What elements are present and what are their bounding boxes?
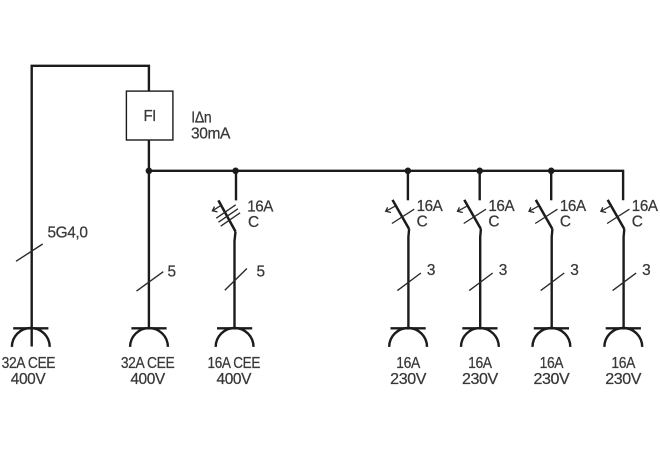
svg-text:C: C <box>488 214 499 231</box>
svg-text:16A: 16A <box>540 355 565 372</box>
wire: horizontal bus with right end drop <box>149 171 623 201</box>
wire: below blade <box>622 229 625 329</box>
breaker cross slash <box>535 209 557 223</box>
slash conductor mark column 5 <box>469 273 493 291</box>
svg-text:FI: FI <box>143 108 156 125</box>
earth bar <box>606 327 641 329</box>
svg-text:IΔn: IΔn <box>191 109 211 126</box>
dome arc <box>461 328 499 347</box>
svg-text:16A: 16A <box>560 198 587 215</box>
svg-text:3: 3 <box>642 262 650 279</box>
RCD FI box U1 <box>126 91 172 140</box>
svg-text:16A: 16A <box>611 355 636 372</box>
wire: below blade <box>479 229 482 329</box>
dome arc <box>12 328 50 347</box>
svg-text:5: 5 <box>168 264 176 281</box>
arrow <box>386 206 395 212</box>
breaker cross slash <box>392 209 414 223</box>
breaker cross slash <box>607 209 629 223</box>
wire: stub from bus <box>235 171 237 201</box>
wire: stub from bus <box>550 171 552 201</box>
arrow <box>212 206 220 212</box>
slash conductor mark column 4 <box>397 273 421 291</box>
svg-text:230V: 230V <box>605 371 642 388</box>
breaker Q3 16A C column 5 <box>458 171 487 329</box>
svg-text:32A CEE: 32A CEE <box>121 355 175 372</box>
blade <box>536 200 553 229</box>
socket X5 16A 230V <box>461 328 499 347</box>
svg-text:400V: 400V <box>11 371 47 388</box>
socket X7 16A 230V <box>604 328 642 347</box>
breaker Q4 16A C column 6 <box>529 171 558 329</box>
earth bar <box>391 327 426 329</box>
socket X2 32A CEE 400V <box>130 328 168 347</box>
svg-text:3: 3 <box>427 262 435 279</box>
wire: below blade <box>235 232 236 330</box>
svg-text:16A: 16A <box>396 355 421 372</box>
wire: FI box to bus <box>148 140 150 171</box>
svg-text:400V: 400V <box>130 371 166 388</box>
svg-text:16A: 16A <box>488 198 515 215</box>
dome arc <box>604 328 642 347</box>
junction dot node 1 <box>146 168 153 175</box>
svg-text:C: C <box>560 214 571 231</box>
wire: column 2 drop (32A CEE) <box>148 171 150 329</box>
breaker Q1 16A C (3-pole) column 3 <box>212 171 240 329</box>
dome arc <box>389 328 427 347</box>
wire: stub from bus <box>407 171 409 201</box>
wire: stub from bus <box>479 171 481 201</box>
svg-text:16A: 16A <box>247 199 274 216</box>
earth bar <box>534 327 569 329</box>
svg-text:3: 3 <box>570 262 578 279</box>
junction dot node 2 <box>232 168 239 175</box>
slash 5G4,0 conductor mark on left feeder <box>16 244 43 261</box>
earth bar <box>217 327 252 329</box>
svg-text:30mA: 30mA <box>191 126 231 143</box>
dome arc <box>533 328 571 347</box>
slash conductor mark column 6 <box>541 273 565 291</box>
earth bar <box>462 327 497 329</box>
svg-text:3: 3 <box>499 262 507 279</box>
svg-text:16A: 16A <box>632 198 659 215</box>
arrow <box>529 206 538 212</box>
svg-text:C: C <box>632 214 643 231</box>
svg-text:230V: 230V <box>390 371 427 388</box>
svg-text:32A CEE: 32A CEE <box>2 355 56 372</box>
socket X3 16A CEE 400V <box>216 328 254 347</box>
wire: below blade <box>551 229 554 329</box>
breaker Q2 16A C column 4 <box>386 171 415 329</box>
breaker Q5 16A C column 7 <box>601 200 630 329</box>
wire: left feeder vertical + top horizontal to FI column <box>32 66 149 347</box>
slash conductor mark column 7 <box>613 273 637 291</box>
arrow <box>601 206 610 212</box>
blade <box>608 200 625 229</box>
svg-text:C: C <box>417 214 428 231</box>
socket X4 16A 230V <box>389 328 427 347</box>
svg-text:5: 5 <box>257 264 265 281</box>
socket X1 32A CEE 400V <box>12 328 50 347</box>
svg-text:C: C <box>248 214 259 231</box>
blade <box>393 200 410 229</box>
junction dot node 4 <box>476 168 483 175</box>
junction dot node 3 <box>405 168 412 175</box>
slash conductor mark column 3 <box>225 269 247 291</box>
svg-text:16A: 16A <box>468 355 493 372</box>
earth bar <box>13 327 48 329</box>
blade <box>464 200 481 229</box>
svg-text:16A: 16A <box>417 198 444 215</box>
dome arc <box>130 328 168 347</box>
slash conductor mark column 2 <box>137 272 164 291</box>
svg-text:230V: 230V <box>462 371 499 388</box>
dome arc <box>216 328 254 347</box>
breaker cross slash <box>464 209 486 223</box>
wire: below blade <box>407 229 410 329</box>
junction dot node 5 <box>548 168 555 175</box>
blade <box>218 200 235 231</box>
earth bar <box>131 327 166 329</box>
svg-text:230V: 230V <box>534 371 571 388</box>
svg-text:5G4,0: 5G4,0 <box>48 225 88 242</box>
svg-text:16A CEE: 16A CEE <box>208 355 261 372</box>
pole hash marks x3 <box>216 205 240 226</box>
arrow <box>458 206 467 212</box>
svg-text:400V: 400V <box>217 371 253 388</box>
socket X6 16A 230V <box>533 328 571 347</box>
